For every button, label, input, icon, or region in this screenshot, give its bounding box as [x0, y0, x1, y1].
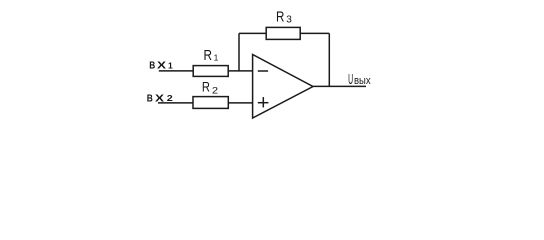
wire input2 to R2	[158, 102, 193, 104]
resistor R2	[193, 97, 228, 109]
svg-text:В: В	[147, 93, 153, 104]
svg-text:R: R	[204, 47, 213, 64]
wire feedback top left	[239, 32, 266, 34]
op-amp minus sign	[258, 70, 268, 72]
node Вх1 (input 1 label)	[149, 60, 173, 71]
node Uвых (output label)	[348, 72, 371, 88]
svg-text:вых: вых	[354, 75, 371, 87]
wire feedback left vertical	[238, 33, 240, 71]
wire feedback right vertical	[328, 33, 330, 86]
wire R1 to op-amp inverting input	[228, 70, 252, 72]
wire input1 to R1	[159, 70, 194, 72]
op-amp U1 triangle	[253, 55, 313, 119]
wire R2 to op-amp non-inverting input	[228, 102, 252, 104]
svg-text:Х: Х	[157, 60, 166, 71]
svg-text:В: В	[149, 60, 155, 71]
svg-text:2: 2	[167, 93, 173, 103]
resistor R3	[266, 27, 300, 39]
wire feedback top right	[300, 32, 329, 34]
svg-text:R: R	[202, 80, 210, 95]
node Вх2 (input 2 label)	[147, 93, 173, 104]
svg-text:1: 1	[214, 53, 219, 63]
svg-text:2: 2	[212, 85, 218, 95]
svg-text:1: 1	[168, 61, 173, 71]
wire output	[313, 85, 366, 87]
svg-text:R: R	[276, 9, 285, 26]
svg-text:U: U	[348, 72, 353, 88]
resistor R1	[193, 66, 228, 77]
svg-text:3: 3	[286, 14, 292, 25]
op-amp plus sign	[258, 102, 269, 104]
